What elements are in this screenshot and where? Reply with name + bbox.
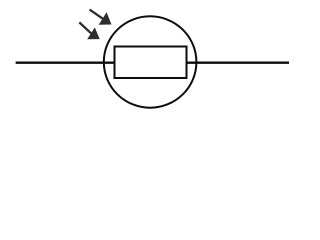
light arrow 1 (upper) xyxy=(90,10,112,25)
LDR envelope circle xyxy=(104,16,197,107)
light arrow 2 (lower) xyxy=(79,22,99,39)
wire xyxy=(16,62,289,64)
resistor body R (rectangle) xyxy=(115,47,187,79)
